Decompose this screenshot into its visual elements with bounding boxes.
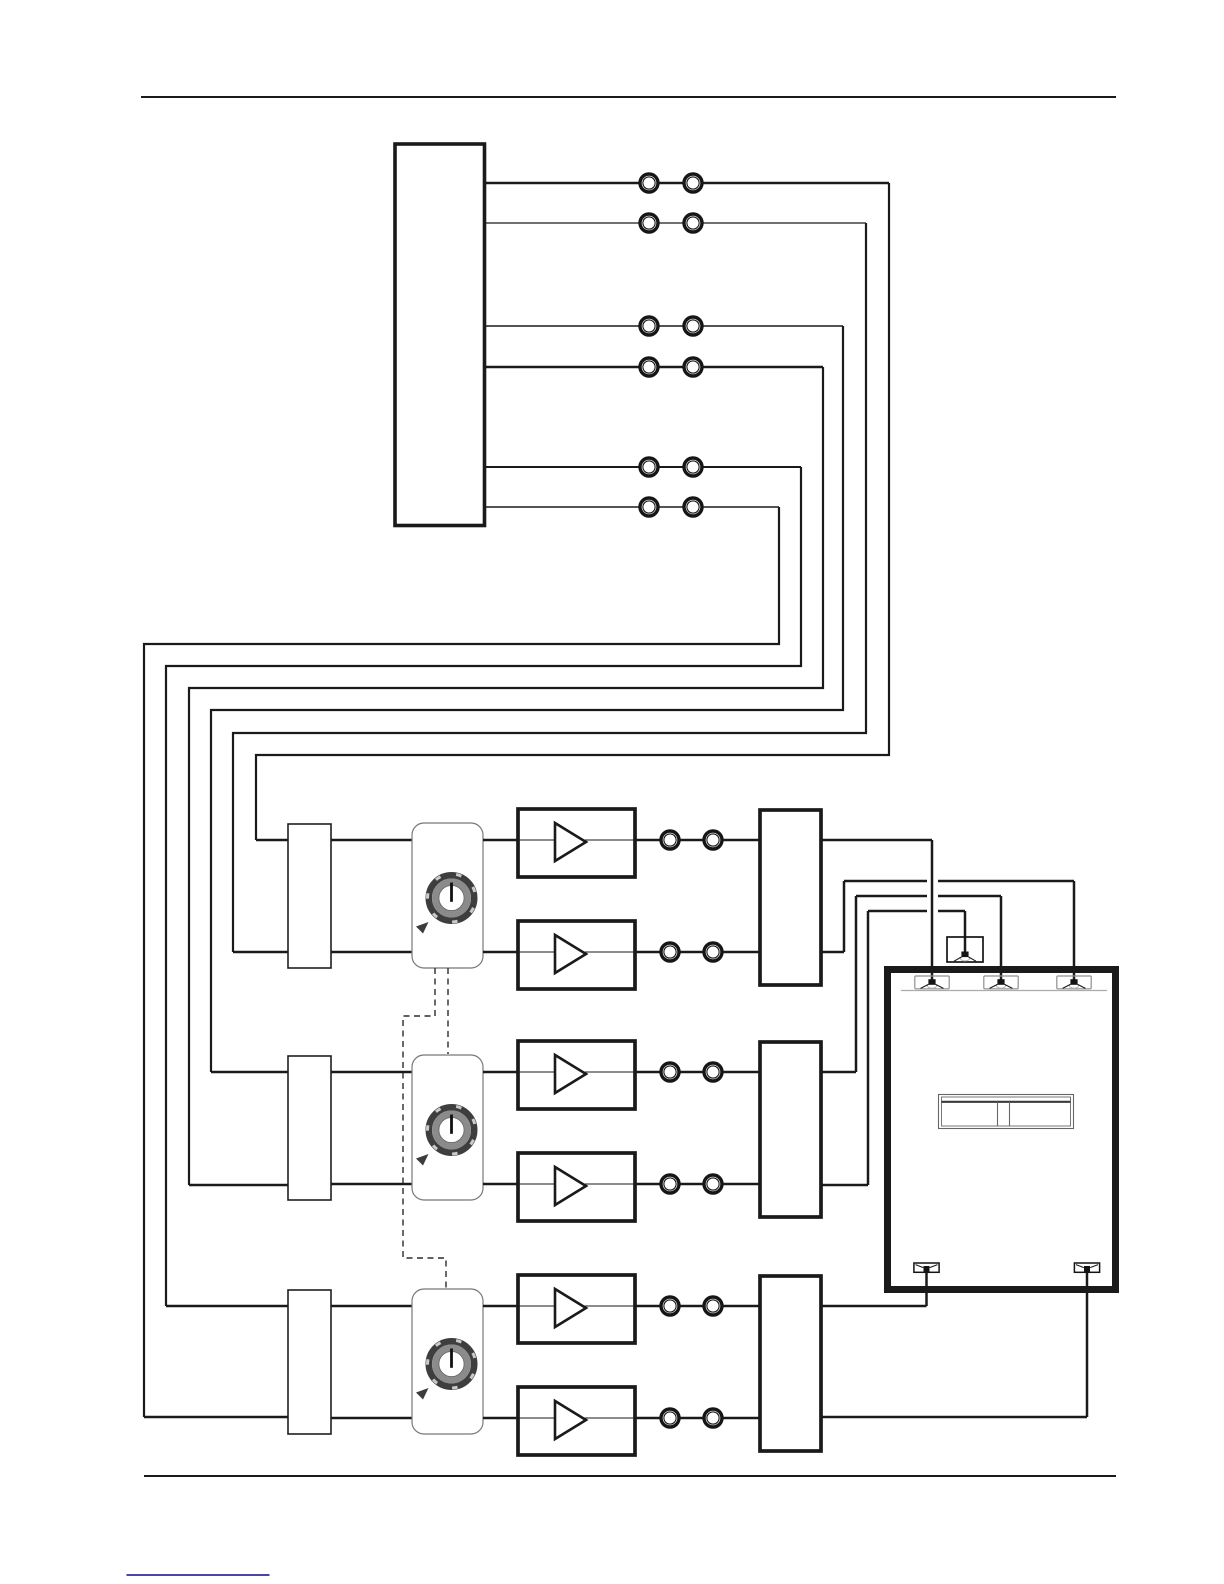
RCA connector pair output 2 <box>640 214 702 232</box>
bus wire 4 to channel 2 bottom <box>189 367 823 1185</box>
wall keypad plate <box>939 1095 1074 1129</box>
channel 1 input wires <box>233 840 288 952</box>
ceiling speaker 1 <box>915 976 949 989</box>
bottom rule <box>144 1475 1116 1477</box>
source output wire 3 <box>486 325 843 327</box>
channel 2 input wires <box>189 1072 288 1185</box>
source output wire 2 <box>486 222 866 224</box>
top rule <box>141 96 1116 98</box>
RCA connector pair output 6 <box>640 498 702 516</box>
dashed link knob1 to knob3 <box>403 968 446 1288</box>
RCA connector pair output 3 <box>640 317 702 335</box>
speaker wire ch2 top to ceiling speaker 2 <box>821 896 1001 1072</box>
channel 3 block <box>288 1275 821 1455</box>
RCA connector pair output 1 <box>640 174 702 192</box>
source output wire 1 <box>486 182 889 185</box>
speaker wire ch1 top to ceiling speaker 1 <box>821 840 932 983</box>
ceiling line inside room <box>901 990 1107 992</box>
RCA connector pair output 5 <box>640 458 702 476</box>
speaker wire ch1 bottom to ceiling speaker 3 <box>821 881 1074 983</box>
bus wire 3 to channel 2 top <box>211 326 843 1072</box>
bus wire 6 to channel 3 bottom <box>144 507 779 1417</box>
source output wire 4 <box>486 366 823 369</box>
bus wire 1 to channel 1 top <box>256 183 889 840</box>
channel 1 block <box>288 809 821 989</box>
speaker wire ch3 bottom to wall speaker right <box>821 1268 1087 1417</box>
room enclosure box <box>888 970 1116 1290</box>
speaker wire ch2 bottom to zone speaker <box>821 911 965 1185</box>
channel 2 block <box>288 1041 821 1221</box>
bus wire 2 to channel 1 bottom <box>233 223 866 952</box>
speaker wire ch3 top to wall speaker left <box>821 1268 927 1306</box>
zone speaker box <box>947 937 983 962</box>
source output wire 6 <box>486 506 779 508</box>
bus wire 5 to channel 3 top <box>166 467 801 1306</box>
source unit box <box>395 144 485 526</box>
dashed link knob1 to knob2 <box>447 968 449 1054</box>
wall speaker bottom right <box>1074 1263 1099 1272</box>
RCA connector pair output 4 <box>640 358 702 376</box>
wall speaker bottom left <box>914 1263 939 1272</box>
footer link line <box>127 1574 270 1576</box>
source output wire 5 <box>486 466 801 468</box>
channel 3 input wires <box>144 1306 288 1417</box>
ceiling speaker 3 <box>1057 976 1091 989</box>
ceiling speaker 2 <box>984 976 1018 989</box>
